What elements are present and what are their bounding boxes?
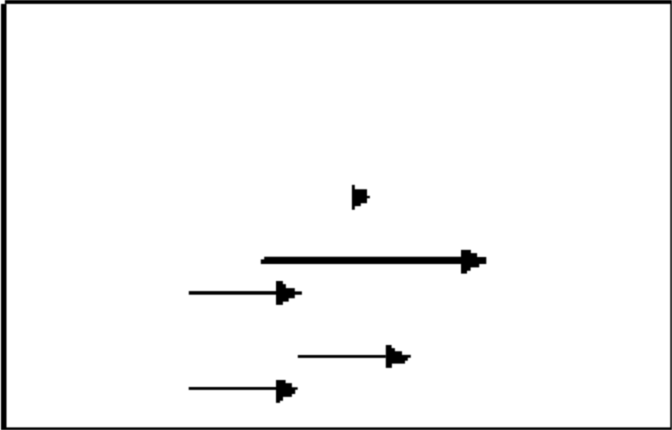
arrow 1 (small, top center) [352, 185, 370, 210]
arrow 4 (thin, lower middle) [298, 345, 411, 368]
border top [5, 0, 672, 4]
arrow 3 (middle left) [189, 281, 302, 305]
border left [1, 4, 7, 430]
arrow 2 (thick, long) [261, 250, 487, 274]
border right [670, 3, 672, 430]
arrow 5 (bottom left) [189, 380, 298, 403]
border bottom [7, 427, 672, 430]
